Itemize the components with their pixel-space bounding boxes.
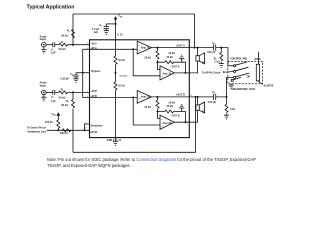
capacitor Co (channel A, 100uF) — [214, 45, 216, 51]
ground GND pins below IC — [113, 138, 118, 146]
internal bias divider resistor 10k lower — [115, 73, 117, 82]
svg-text:−: − — [139, 44, 141, 47]
svg-text:5: 5 — [87, 43, 88, 45]
capacitor CB 0.33uF on bypass — [73, 73, 78, 79]
svg-text:−IN B: −IN B — [91, 90, 98, 93]
svg-text:S: S — [101, 26, 103, 28]
svg-text:−: − — [161, 69, 163, 72]
wire Amp2B output / -OUT B — [174, 110, 197, 122]
ground under CS — [104, 31, 109, 35]
wire bias vertical tying +IN pins to bypass — [82, 49, 84, 97]
wire +OUT B external — [189, 96, 226, 98]
svg-text:50 kΩ/2: 50 kΩ/2 — [120, 75, 129, 78]
svg-text:−IN A: −IN A — [91, 42, 97, 45]
resistor Rf (channel B, 20k) on lower feedback leg — [72, 92, 75, 152]
svg-text:f: f — [69, 31, 70, 33]
resistor 1k pulldown channel A — [220, 48, 223, 64]
svg-text:DD: DD — [53, 115, 56, 117]
svg-text:20 kΩ: 20 kΩ — [61, 33, 68, 37]
svg-text:100 kΩ: 100 kΩ — [60, 132, 68, 135]
svg-text:20 kΩ: 20 kΩ — [169, 101, 176, 104]
op-amp Amp1B — [137, 91, 151, 104]
jack sleeve lead — [258, 81, 262, 84]
jack contact: control pin — [234, 70, 236, 72]
resistor Rf (channel A, 20k) vertical on feedback leg — [72, 30, 75, 38]
svg-text:Amp 1A: Amp 1A — [141, 46, 150, 49]
svg-text:+OUT A: +OUT A — [176, 44, 185, 47]
svg-text:8: 8 — [87, 91, 88, 93]
wire: feedback rail channel A (top) — [73, 14, 195, 48]
svg-text:+: + — [139, 49, 141, 52]
svg-text:−OUT B: −OUT B — [171, 115, 180, 118]
svg-text:1 µF: 1 µF — [51, 99, 57, 103]
wire Ri to -IN B pin — [68, 91, 90, 93]
internal bias divider resistor 10k upper — [115, 40, 117, 56]
ground (internal, Amp2B bias) — [179, 104, 184, 111]
node after Co B / tip junction — [226, 96, 228, 98]
speaker A 8 Ohm — [197, 48, 199, 56]
wire: feedback rail channel B (bottom) — [73, 97, 196, 152]
power flag VDD (pull-up) — [57, 116, 59, 121]
op-amp Amp2B — [160, 115, 174, 129]
svg-text:100 kΩ: 100 kΩ — [45, 121, 53, 124]
resistor Ri (channel B, 20k) — [59, 91, 68, 94]
svg-text:To HP-IN Circuit: To HP-IN Circuit — [202, 71, 221, 74]
wire jack plug stem — [258, 52, 260, 65]
wire Ci to Ri B — [55, 91, 59, 93]
svg-text:SLEEVE: SLEEVE — [264, 84, 274, 87]
wire bypass pin to CB — [76, 72, 90, 74]
op-amp Amp2A — [160, 66, 174, 80]
wire +IN A bias tie — [83, 48, 138, 50]
wire bias drop to Amp2B + input — [133, 98, 160, 126]
svg-text:1 µF: 1 µF — [51, 51, 57, 55]
svg-text:20 kΩ: 20 kΩ — [167, 105, 174, 108]
jack contact: sleeve sense (top) — [228, 65, 234, 67]
svg-text:TSSOP, and Exposed-DAP WQFN pa: TSSOP, and Exposed-DAP WQFN packages. — [47, 163, 131, 168]
svg-text:20 kΩ: 20 kΩ — [167, 56, 174, 59]
resistor 100k pull-up on HP-IN — [57, 120, 60, 130]
wire control pin to HP-IN reference — [226, 71, 234, 74]
internal feedback resistor 20k Amp2B — [158, 110, 186, 122]
svg-text:8Ω: 8Ω — [202, 61, 205, 64]
svg-text:10 kΩ: 10 kΩ — [118, 59, 125, 62]
power flag VDD — [115, 20, 117, 24]
svg-text:20 kΩ: 20 kΩ — [59, 47, 66, 51]
svg-text:Bypass: Bypass — [92, 70, 102, 73]
wire VDD to bypass cap CS — [106, 23, 115, 25]
svg-text:tant: tant — [94, 31, 98, 34]
wire Amp1B output — [152, 96, 190, 98]
svg-text:100 µF: 100 µF — [207, 50, 216, 54]
svg-text:Note: Pin out shown for SOIC p: Note: Pin out shown for SOIC package. Re… — [47, 157, 256, 162]
ground under input jack A — [41, 47, 46, 53]
svg-text:20 kΩ: 20 kΩ — [59, 95, 66, 99]
svg-text:Amp 2B: Amp 2B — [163, 122, 172, 125]
svg-text:1 kΩ: 1 kΩ — [214, 60, 220, 64]
svg-text:10 kΩ: 10 kΩ — [118, 85, 125, 88]
svg-text:Headphone Jack: Headphone Jack — [27, 132, 46, 134]
svg-text:TIP: TIP — [246, 76, 250, 79]
svg-text:Typical Application: Typical Application — [27, 5, 75, 11]
internal resistor 20k from Amp1A out down — [156, 48, 159, 63]
svg-text:100 µF: 100 µF — [208, 100, 217, 104]
resistor Ri (channel A, 20k) — [59, 43, 68, 46]
svg-text:4, 13: 4, 13 — [117, 34, 123, 37]
svg-text:20 kΩ: 20 kΩ — [145, 57, 152, 60]
svg-text:20 kΩ: 20 kΩ — [61, 103, 68, 107]
svg-text:Amp 1B: Amp 1B — [141, 96, 150, 99]
wire +OUT A external — [189, 48, 228, 66]
node: input B summing junction — [72, 91, 74, 93]
capacitor Co (channel B, 100uF) — [214, 94, 216, 100]
node VDD junction — [115, 23, 117, 25]
node: input A summing junction — [72, 44, 74, 46]
svg-text:DD: DD — [120, 16, 123, 18]
IC U1 package outline — [90, 40, 190, 138]
svg-text:CONTROL PIN: CONTROL PIN — [230, 58, 247, 61]
capacitor CS (1.0uF tant) — [104, 24, 109, 31]
svg-text:1.0 µF: 1.0 µF — [92, 28, 100, 31]
ground under 1k A — [219, 64, 224, 68]
svg-text:−OUT A: −OUT A — [171, 65, 180, 68]
wire Ri to -IN A pin — [68, 44, 90, 46]
ground under 1k B — [224, 115, 229, 119]
svg-text:f: f — [68, 101, 69, 103]
svg-text:Amp 2A: Amp 2A — [163, 73, 172, 76]
wire bias drop to Amp2A + input — [133, 49, 160, 76]
wire to Amp2A inverting input — [158, 62, 161, 69]
svg-text:20 kΩ: 20 kΩ — [169, 52, 176, 55]
resistor 1k pulldown channel B — [225, 97, 228, 115]
svg-text:10: 10 — [85, 122, 87, 124]
svg-text:To Control Pin on: To Control Pin on — [27, 126, 47, 129]
node bypass / divider midpoint — [115, 72, 117, 74]
svg-text:−: − — [161, 118, 163, 121]
svg-text:RING: RING — [255, 58, 261, 61]
wire VDD down to pin 4,13 — [115, 24, 117, 40]
ground under input jack B — [41, 95, 46, 101]
svg-text:HP-IN: HP-IN — [91, 131, 98, 134]
wire Ci to Ri — [55, 44, 59, 46]
svg-text:Input: Input — [40, 38, 46, 41]
node after Co A — [220, 47, 222, 49]
wire tip riser to jack — [227, 77, 234, 97]
jack contact: tip — [234, 76, 236, 78]
wire HP-IN net — [47, 129, 90, 131]
capacitor Ci (channel B, 1uF) — [53, 90, 55, 95]
svg-text:0.33 µF: 0.33 µF — [61, 77, 70, 80]
resistor 100k series to HP-IN pin — [62, 129, 71, 132]
internal resistor 20k from Amp1B out down — [156, 97, 159, 112]
wire Amp2A output / -OUT A — [174, 61, 197, 73]
ground (internal, Amp2A bias) — [179, 55, 184, 62]
wire Amp1A output — [152, 47, 190, 49]
svg-text:+: + — [139, 97, 141, 100]
svg-text:Input: Input — [40, 85, 46, 88]
wire input B to Ci — [46, 91, 53, 93]
jack contact: sleeve to ground — [231, 79, 233, 81]
wire +IN B — [83, 97, 138, 99]
op-amp Amp1A — [137, 41, 151, 54]
wire input A to Ci — [46, 44, 53, 46]
svg-text:1 kΩ: 1 kΩ — [230, 107, 236, 111]
internal feedback resistor 20k Amp2A — [158, 61, 186, 73]
ground under jack — [229, 84, 234, 89]
shutdown pin stub — [85, 124, 90, 130]
jack plug body — [256, 64, 259, 81]
wire to Amp2B inverting input — [158, 112, 161, 119]
svg-text:GND 2, 7, 15: GND 2, 7, 15 — [107, 139, 122, 142]
svg-text:Shutdown: Shutdown — [91, 124, 104, 127]
svg-text:HEADPHONE JACK: HEADPHONE JACK — [232, 88, 256, 91]
headphone jack J1 (dashed) — [228, 62, 263, 84]
svg-text:8Ω: 8Ω — [202, 111, 205, 114]
svg-text:+OUT B: +OUT B — [176, 94, 185, 97]
svg-text:20 kΩ: 20 kΩ — [145, 106, 152, 109]
capacitor Ci (channel A, 1uF) — [53, 42, 55, 47]
speaker B 8 Ohm — [197, 97, 199, 105]
